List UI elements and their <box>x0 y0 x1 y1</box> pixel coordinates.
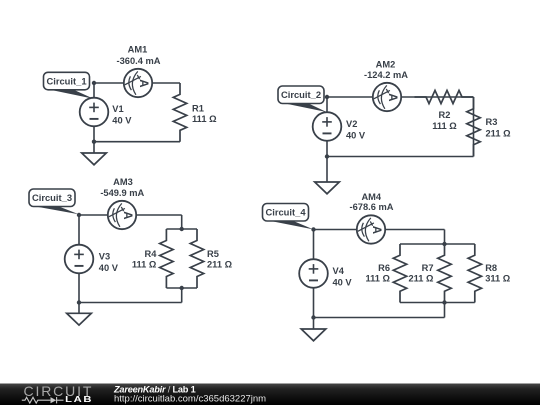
svg-text:111 Ω: 111 Ω <box>192 114 217 124</box>
svg-text:-678.6 mA: -678.6 mA <box>350 202 394 212</box>
svg-text:R8: R8 <box>485 263 497 273</box>
svg-text:A: A <box>121 211 133 219</box>
svg-text:AM3: AM3 <box>113 177 133 187</box>
svg-text:V3: V3 <box>99 252 110 262</box>
svg-text:http://circuitlab.com/c365d632: http://circuitlab.com/c365d63227jnm <box>114 393 266 404</box>
svg-text:211 Ω: 211 Ω <box>408 274 434 284</box>
svg-text:A: A <box>137 79 149 87</box>
svg-text:Circuit_3: Circuit_3 <box>32 192 72 203</box>
svg-text:111 Ω: 111 Ω <box>132 260 157 270</box>
svg-text:V1: V1 <box>112 104 123 114</box>
svg-text:311 Ω: 311 Ω <box>485 274 511 284</box>
svg-text:Circuit_4: Circuit_4 <box>265 207 306 218</box>
svg-text:R7: R7 <box>422 263 434 273</box>
svg-text:R5: R5 <box>207 249 219 259</box>
svg-text:-360.4 mA: -360.4 mA <box>117 56 161 66</box>
svg-text:V4: V4 <box>333 266 345 276</box>
svg-text:AM1: AM1 <box>128 45 148 55</box>
svg-text:111 Ω: 111 Ω <box>432 121 457 131</box>
svg-text:R4: R4 <box>145 249 158 259</box>
svg-text:R1: R1 <box>192 104 204 114</box>
svg-text:111 Ω: 111 Ω <box>365 274 390 284</box>
svg-text:LAB: LAB <box>65 395 93 404</box>
svg-text:40 V: 40 V <box>112 115 132 125</box>
svg-text:A: A <box>370 226 382 234</box>
svg-text:40 V: 40 V <box>99 263 119 273</box>
svg-text:Circuit_2: Circuit_2 <box>281 89 321 100</box>
svg-text:211 Ω: 211 Ω <box>207 260 233 270</box>
svg-text:211 Ω: 211 Ω <box>486 129 512 139</box>
svg-text:AM2: AM2 <box>376 60 396 70</box>
svg-text:A: A <box>386 93 398 101</box>
svg-text:R3: R3 <box>486 117 498 127</box>
svg-text:R2: R2 <box>439 110 451 120</box>
svg-text:Circuit_1: Circuit_1 <box>46 75 86 86</box>
svg-text:40 V: 40 V <box>333 277 353 287</box>
svg-text:V2: V2 <box>346 119 357 129</box>
svg-text:-124.2 mA: -124.2 mA <box>364 70 408 80</box>
svg-text:AM4: AM4 <box>361 192 381 202</box>
svg-text:R6: R6 <box>378 263 390 273</box>
svg-text:40 V: 40 V <box>346 130 366 140</box>
svg-text:-549.9 mA: -549.9 mA <box>100 188 144 198</box>
